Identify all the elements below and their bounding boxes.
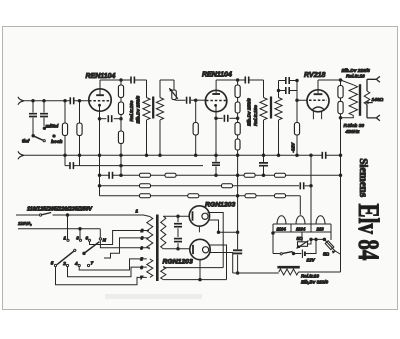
potentiometer volume [172, 90, 177, 100]
node dots bus A [64, 154, 67, 157]
transformer T4 primary upper [147, 217, 153, 250]
wire filament winding top [163, 267, 223, 269]
wire contact6 to tap2 [90, 231, 147, 245]
tube V1 REN1104 [89, 89, 111, 111]
wire anode bus V1 [100, 79, 147, 81]
wire cathode V1 [99, 105, 101, 155]
resistor bus D [140, 184, 151, 188]
svg-text:Siemens: Siemens [357, 158, 369, 198]
wire rectifier V4 bottom lead [198, 226, 200, 232]
capacitor antenna branch 2 [40, 101, 48, 126]
wire mains L1 [16, 214, 39, 216]
transformer T1 core [152, 97, 154, 119]
resistor bias column [296, 81, 298, 156]
heater pins V3 [313, 111, 321, 120]
wire bus D [100, 185, 300, 187]
scan smudge [105, 294, 202, 299]
svg-text:RGN1203: RGN1203 [205, 201, 235, 208]
wire rectifier V4 filament b [208, 220, 237, 232]
wire filament winding bottom [163, 279, 226, 281]
wire anode bus V2 [216, 79, 263, 81]
svg-text:3: 3 [141, 236, 144, 241]
selector lever 1 [83, 252, 86, 255]
svg-text:2: 2 [140, 228, 144, 233]
capacitor antenna branch 1 [29, 101, 37, 136]
wire HV top to rectifier [163, 215, 189, 217]
svg-text:6: 6 [86, 236, 89, 241]
transformer T4 core [156, 215, 159, 282]
selector lever 2 [57, 251, 74, 265]
rheostat 5ohm 1 [301, 232, 303, 242]
wire bottom right [298, 271, 340, 273]
wire rectifier V5 bottom lead [199, 260, 201, 280]
svg-text:2: 2 [62, 261, 66, 266]
capacitor coupling stage2 [245, 76, 248, 84]
svg-text:mittel: mittel [46, 124, 59, 130]
wire to potentiometer [160, 80, 174, 90]
svg-text:REN1104: REN1104 [202, 72, 232, 79]
wire bus E [100, 195, 301, 197]
capacitor pair tone [279, 81, 286, 91]
svg-text:RGN1203: RGN1203 [163, 259, 193, 266]
svg-text:12V: 12V [307, 258, 316, 263]
svg-text:Rel.tr.16: Rel.tr.16 [301, 274, 319, 279]
switch mains [40, 214, 42, 216]
wire bus B [65, 165, 203, 167]
svg-text:140Ω: 140Ω [372, 97, 384, 103]
wire rheostat links [308, 239, 325, 244]
transformer T3 secondary [364, 91, 370, 105]
wire feed contact 3 [79, 229, 81, 239]
heater arch 3 [316, 216, 325, 224]
svg-text:Elb.Dv 250/8: Elb.Dv 250/8 [136, 95, 141, 123]
capacitor series bus A right [322, 151, 325, 159]
transformer T4 secondary HV [161, 216, 166, 249]
svg-text:7: 7 [140, 275, 143, 280]
capacitors HV pair [177, 216, 179, 222]
capacitor electrolytic A-C [259, 155, 268, 175]
wire primary bottom [341, 115, 354, 117]
capacitor series antenna [70, 97, 73, 105]
capacitor cathode V1 [100, 118, 107, 120]
wire anode V3 [318, 79, 341, 81]
tube V3 RV218 [307, 90, 329, 112]
heater arch 1 [277, 216, 286, 224]
wire N to tap6 [100, 240, 146, 248]
transformer T2 core [270, 97, 272, 119]
resistors bus E [140, 194, 151, 198]
svg-text:Elb,Bv 318/9: Elb,Bv 318/9 [301, 280, 329, 285]
wire bottom return [233, 272, 279, 274]
svg-text:Rel.tr.16: Rel.tr.16 [346, 73, 365, 79]
tube RGN1203 upper [189, 206, 209, 226]
resistors bus C [140, 173, 151, 177]
svg-text:Rel.tr.10c: Rel.tr.10c [253, 105, 258, 126]
svg-text:6: 6 [140, 265, 143, 270]
capacitor series bus B [70, 162, 73, 170]
resistor grid leak V2 [195, 100, 197, 155]
wire contact2 to tap6b [68, 267, 147, 277]
wire tap3 branch [104, 238, 147, 258]
resistor R1 [64, 101, 66, 166]
svg-text:hoch: hoch [51, 139, 63, 145]
ground terminal [18, 151, 24, 159]
svg-text:F.Sich 30: F.Sich 30 [344, 123, 365, 129]
wire rectifier V4 filament a [208, 213, 224, 268]
field coil bar [277, 266, 299, 269]
wire bus C [100, 174, 341, 176]
svg-text:Rel.tr.10c: Rel.tr.10c [129, 100, 134, 121]
transformer T3 output primary [349, 85, 357, 116]
resistor R2 [79, 101, 81, 166]
svg-text:218: 218 [316, 227, 325, 232]
heater box [273, 224, 331, 232]
choke pair anode [340, 80, 342, 118]
svg-text:REN1104: REN1104 [86, 73, 116, 80]
speaker terminal top [367, 76, 380, 91]
wire B+ vertical [237, 155, 239, 249]
transformer T4 primary lower [147, 259, 153, 278]
selector contacts row 1 [67, 239, 69, 241]
wire main bus A [24, 154, 341, 156]
wire HV bottom to rectifier [163, 248, 190, 250]
capacitor shunt A-C [215, 166, 217, 175]
resistor column stage1 [120, 80, 122, 175]
svg-text:1104: 1104 [277, 227, 287, 232]
svg-text:5Ω: 5Ω [323, 252, 330, 257]
svg-text:6: 6 [140, 246, 143, 251]
wire heater left leg [272, 232, 274, 254]
wire feed N [99, 229, 101, 238]
speaker terminal bottom [367, 105, 380, 121]
svg-text:Elb.Dv 250/6: Elb.Dv 250/6 [247, 98, 252, 126]
secondary tap arrow [367, 102, 373, 104]
svg-text:Elv 84: Elv 84 [352, 204, 385, 261]
capacitor electrolytic main [233, 250, 242, 253]
svg-text:110VA,: 110VA, [18, 221, 32, 227]
transformer T3 core [359, 84, 361, 116]
svg-text:4: 4 [74, 261, 78, 266]
transformer T1 secondary [159, 80, 161, 98]
capacitor cathode V2 [216, 117, 223, 119]
wire antenna bus [24, 100, 89, 102]
svg-text:5: 5 [140, 257, 143, 262]
svg-text:Elb.Dv 229/8: Elb.Dv 229/8 [342, 68, 371, 74]
capacitor grid V2 [187, 96, 190, 104]
field coil resistor [279, 269, 299, 275]
capacitor series bus C [109, 171, 112, 179]
battery 12V [301, 250, 303, 259]
transformer T4 secondary filament [161, 266, 166, 279]
svg-text:5: 5 [51, 260, 54, 265]
wire cathode V2 [215, 105, 217, 161]
resistor column stage2 [237, 80, 239, 155]
capacitor coupling stage1 [131, 76, 134, 84]
svg-text:1: 1 [136, 208, 139, 213]
wire mains L2 [18, 228, 100, 230]
selector contacts row 2 [54, 264, 56, 266]
wire bus E corner down [299, 196, 301, 215]
wire rectifier V5 filament b [209, 253, 232, 274]
heater arch 2 [296, 216, 305, 224]
wire long vertical right [340, 118, 342, 272]
wire rectifier V5 filament a [209, 245, 227, 280]
wire leg buses CDE [99, 155, 101, 196]
wire feed heater divider [310, 155, 312, 224]
tube RGN1203 lower [190, 239, 210, 259]
transformer T2 secondary [278, 81, 280, 98]
svg-text:RV218: RV218 [304, 72, 326, 79]
transformer T1 primary [146, 80, 148, 98]
wire contact4 to tap5 [79, 259, 147, 270]
svg-text:3: 3 [76, 236, 79, 241]
wire contact5 to tap7 [56, 267, 147, 285]
svg-text:5Ω: 5Ω [297, 236, 304, 241]
svg-text:tief: tief [22, 139, 30, 145]
tube V2 REN1104 [205, 90, 226, 111]
svg-text:110/125/205/220/235/250V: 110/125/205/220/235/250V [27, 206, 93, 212]
capacitor series bus D [300, 182, 303, 190]
wire feed contact 1 [67, 215, 69, 239]
switch heater [273, 253, 280, 255]
svg-text:1: 1 [64, 236, 67, 241]
svg-text:-82V: -82V [290, 142, 295, 153]
switch band selector [32, 135, 35, 138]
rheostat 5ohm 2 [330, 232, 332, 240]
antenna terminal [18, 97, 24, 105]
svg-text:7: 7 [91, 260, 94, 265]
svg-text:1104: 1104 [296, 227, 306, 232]
transformer T2 primary [263, 80, 265, 98]
svg-text:420Hz: 420Hz [345, 129, 360, 135]
